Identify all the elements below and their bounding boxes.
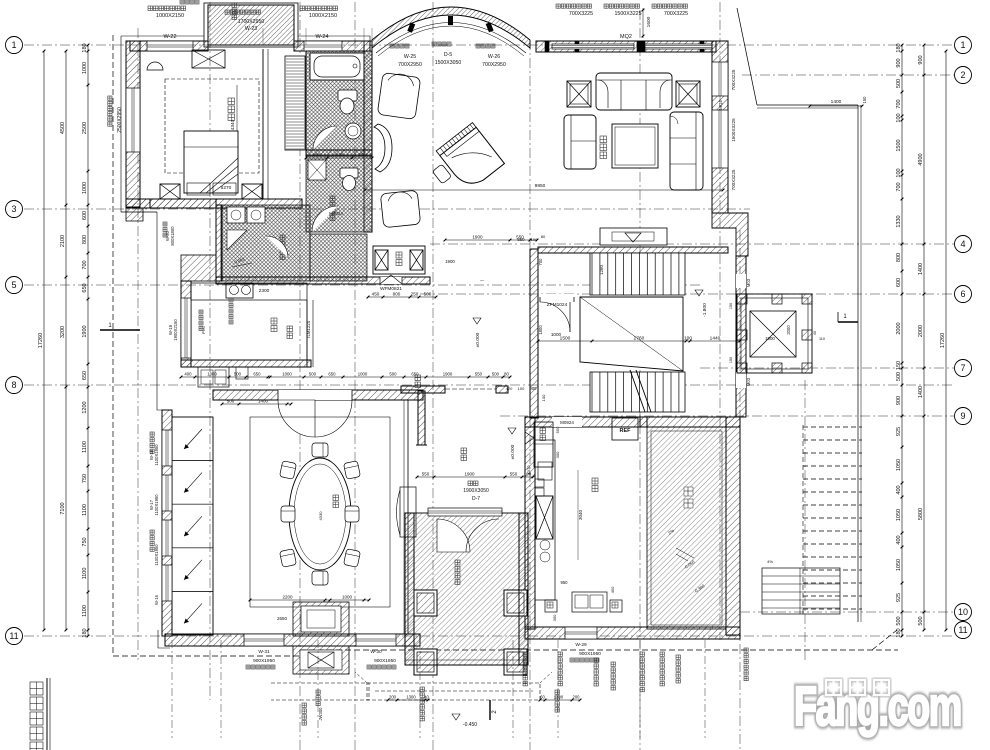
wall chinese kitchen left [181, 281, 191, 367]
door arc bath2 [312, 206, 338, 232]
grid line row 6 [420, 293, 954, 295]
wall stair top [538, 247, 728, 253]
garden steps right [762, 568, 840, 614]
bench top of stairs [600, 228, 667, 245]
watermark chinese core [826, 680, 841, 695]
dining inner rect [250, 417, 390, 607]
dumbwaiter X shaft [536, 496, 553, 539]
wall living right [712, 41, 728, 213]
label above W-24 [300, 6, 338, 11]
bath2 label [330, 196, 335, 221]
terrace inner edge [651, 431, 722, 625]
dim 1900 left of stairs [445, 239, 537, 241]
eave dashed line left [112, 35, 114, 656]
stair landing [580, 297, 683, 371]
stove [226, 283, 253, 298]
note left bottom [302, 703, 306, 725]
water box 2 [610, 600, 622, 612]
porch columns [414, 590, 437, 616]
wall laundry bottom / corridor wall [216, 277, 430, 284]
side table X right [676, 81, 700, 107]
armchair lower [380, 190, 420, 228]
wall bedroom top right of bay [294, 41, 370, 51]
eave dashed line bottom [300, 649, 898, 651]
window W-22 [147, 41, 193, 51]
dim row corridor [368, 296, 436, 298]
shower bath4 [227, 230, 247, 250]
wall lamp arc [147, 62, 163, 70]
grand piano [436, 123, 504, 192]
nightstand right [242, 184, 262, 199]
terrace label [684, 487, 693, 496]
dim row hall y338 [538, 340, 740, 342]
wall stair left [530, 249, 538, 418]
grid col A [137, 28, 139, 660]
grid bubble right 6 [955, 286, 972, 303]
wall bedroom top [130, 41, 208, 51]
wardrobe strip [172, 417, 213, 635]
elevator shaft [737, 294, 812, 373]
window W-29 [565, 627, 597, 639]
kitchen sink bottom [572, 592, 607, 612]
grid line row 3 [24, 208, 750, 210]
door TLM1224 [306, 300, 308, 367]
note under porch [420, 687, 424, 721]
grid line row 2 [742, 74, 954, 76]
bath4 tile floor [221, 205, 310, 281]
coffee table [612, 124, 658, 168]
small boxes W [535, 479, 544, 487]
washer boxes [227, 207, 245, 223]
vertical refs bottom [171, 640, 173, 738]
left dimension total [43, 51, 45, 630]
dining door opening arcs [278, 390, 352, 400]
dim 400 1000 500 650 row [181, 376, 268, 378]
note 500x400 [229, 298, 233, 324]
wall left step mid [181, 255, 216, 281]
wall kitchen left [525, 417, 535, 629]
porch label [455, 560, 460, 585]
grid bubble right 9 [955, 408, 972, 425]
grid col G [639, 10, 641, 750]
level +0.000 hall [473, 318, 481, 324]
wall bedroom/bath divider [262, 49, 264, 199]
grid col H [719, 2, 721, 640]
watermark Fang.com core [794, 675, 961, 737]
grid bubble right 7 [955, 360, 972, 377]
note pvc pipe 2 [558, 652, 562, 686]
bed pillows [187, 183, 210, 195]
shower bath2 [308, 160, 326, 180]
toilet bath1 [338, 90, 357, 101]
right dimension string inner [901, 45, 903, 636]
armchair upper [377, 73, 420, 120]
basin bath1 [345, 123, 361, 139]
grid line row 8 [24, 384, 954, 386]
hall label mid [287, 326, 293, 339]
grid line row 9 [500, 415, 954, 417]
porch side walls [405, 513, 414, 665]
hall label [461, 448, 467, 461]
sink room below [198, 367, 229, 387]
fireplace [293, 602, 349, 636]
level -1.800 [695, 290, 703, 296]
ground well label [396, 252, 402, 266]
vertical refs top [262, 28, 264, 45]
dim rows dining bottom [250, 599, 369, 601]
porch step dash diagonals [355, 672, 367, 683]
door WFM0821 [380, 277, 402, 284]
eave dashed diagonal bottom-right [872, 630, 897, 650]
note terrace drain [744, 648, 748, 681]
porch step dashes [367, 683, 540, 700]
grid line row 1 [24, 44, 954, 46]
grid bubble right 1 [955, 37, 972, 54]
fridge REF [612, 418, 638, 440]
dim 4340 vertical [236, 85, 238, 170]
wall step living bottom-right [712, 213, 748, 256]
windows living right [712, 62, 728, 96]
dim row hall y475 [417, 476, 533, 478]
wall bath right [364, 41, 372, 232]
bath4 label [280, 235, 285, 260]
grid bubble left 8 [6, 377, 23, 394]
label above W-22 [148, 6, 186, 11]
kitchen counters left [535, 440, 555, 600]
wall MQ2 top [536, 41, 716, 52]
wall bedroom left [126, 41, 140, 207]
toilet bath2 [340, 168, 358, 178]
note pvc pipe 7 [676, 655, 680, 683]
room label living [600, 136, 607, 159]
note above bay left [180, 0, 199, 4]
bedroom ceiling dashed [165, 79, 259, 173]
parapet steps bottom-left corner [157, 212, 162, 410]
dining table oval [289, 458, 351, 570]
note pvc pipe 1 [523, 652, 527, 686]
wall kitchen top [525, 417, 647, 427]
pergola dashed beams [803, 426, 862, 428]
grid bubble left 11 [6, 628, 23, 645]
piano stool [432, 164, 451, 184]
door arc bath1 [313, 126, 337, 150]
eave dashed line bottom-left [113, 655, 330, 657]
dim row dining top [222, 403, 291, 405]
fireplace dashed surround [271, 683, 369, 700]
break line [630, 370, 645, 412]
labels above MQ2 [556, 4, 591, 8]
dim row under bath1 [306, 157, 372, 159]
sofa top 3-seat [596, 73, 672, 110]
dining right wall lower [407, 400, 409, 634]
wall bedroom bottom [126, 199, 302, 208]
stairs lower run [590, 372, 685, 412]
grid line row 11 [24, 635, 954, 637]
dim row porch bottom [388, 699, 428, 701]
grid col C [299, 2, 301, 750]
wall laundry left [216, 205, 222, 281]
wall dining top [213, 390, 423, 400]
fireplace chimney below wall [293, 646, 349, 674]
grid bubble left 1 [6, 37, 23, 54]
wall hall/dining divider vertical [418, 391, 425, 445]
chinese kitchen counter [191, 283, 307, 300]
note pvc pipe 6 [611, 662, 615, 690]
porch floor [405, 513, 528, 665]
grid line row 5 [24, 284, 700, 286]
section marker 1 left [100, 329, 140, 331]
grid line row 4 [430, 243, 954, 245]
note pvc pipe 4 [660, 652, 664, 686]
door arc bath4 [266, 236, 288, 258]
grid col J [804, 380, 806, 660]
eave line top-right diagonal [737, 8, 757, 105]
wall bottom kitchen/terrace [525, 627, 740, 639]
grid col E [432, 2, 434, 750]
bathtub [310, 53, 364, 80]
wall dining left outer [162, 410, 172, 636]
elevator piers [737, 294, 747, 304]
kitchen label [592, 478, 598, 492]
curved bay wall [372, 7, 530, 48]
note top-left corner [232, 3, 237, 20]
window bench [374, 124, 392, 172]
porch bottom edge [405, 664, 528, 666]
sofa right 3-seat [670, 112, 703, 190]
closet shelving strip [285, 56, 305, 150]
hall south wall segments [401, 386, 445, 393]
level -0.450 [452, 714, 460, 720]
ground well box [373, 246, 425, 274]
left dimension string inner [87, 45, 89, 636]
grid bubble left 3 [6, 201, 23, 218]
dining label [333, 495, 339, 508]
door ZFM1024 [540, 294, 574, 302]
grid bubble right 11 [955, 622, 972, 639]
grid line row 10 [740, 611, 954, 613]
wall right main [736, 256, 746, 417]
watermark chinese halo [826, 680, 841, 695]
section marker 1 right [838, 321, 858, 323]
curved bay mullion blocks [407, 23, 415, 33]
side table X left [567, 81, 591, 107]
door M03 lower [736, 372, 746, 388]
bath1 tile floor [306, 51, 372, 155]
parapet outline top-left [121, 35, 204, 37]
bed [184, 131, 238, 193]
cabinet niche right [400, 487, 416, 537]
loveseat left [564, 115, 596, 169]
wardrobe top of bedroom [192, 50, 225, 68]
windows dining left W-18 W-17 W-16 [162, 430, 172, 466]
room label bedroom [228, 98, 235, 121]
level +0.000 hall2 [508, 428, 516, 434]
grid bubble right 2 [955, 67, 972, 84]
grid col I [739, 230, 741, 750]
dim 9850 [365, 189, 723, 191]
note under porch 2 [555, 690, 559, 712]
bath2 tile floor [306, 156, 372, 232]
dining chairs [279, 461, 296, 480]
wall kitchen bottom [181, 360, 311, 367]
eave line right vertical [857, 105, 859, 622]
kitchen label chinese [271, 318, 277, 332]
wall bath1 divider [305, 51, 307, 155]
grid line row 7 [700, 367, 954, 369]
porch door threshold [428, 508, 502, 516]
grid col D [354, 2, 356, 750]
terrace floor hatched [647, 427, 726, 629]
terrace slope mark [676, 548, 694, 561]
grid bubble left 5 [6, 277, 23, 294]
dim row y377 left [270, 376, 510, 378]
water box 1 [545, 600, 557, 612]
left dimension string groups [65, 51, 67, 630]
hall label [415, 375, 421, 388]
corridor tile floor [310, 234, 367, 281]
nightstand left [160, 184, 180, 199]
window W-24 [304, 41, 342, 51]
wall dining bottom [165, 634, 420, 646]
grid col F [529, 40, 531, 750]
small box below kitchen [236, 367, 248, 379]
service shaft boxes [534, 422, 553, 467]
grid col B [209, 2, 211, 700]
porch door swing arcs [437, 519, 470, 552]
note pvc pipe 5 [594, 658, 598, 686]
bay window W-23 [208, 5, 294, 45]
wall stub left of laundry [150, 199, 216, 208]
door triangles kitchen [525, 432, 534, 444]
window W-31 [244, 634, 284, 646]
terrace top wall [640, 417, 740, 427]
window W-21 [126, 88, 140, 152]
right dimension total [945, 51, 947, 630]
stairs upper run [590, 253, 685, 295]
window W-30 [356, 634, 396, 646]
svg-text:Fang.com: Fang.com [794, 675, 961, 737]
dim 1400 top right [810, 105, 862, 107]
title first floor plan [30, 682, 43, 750]
door M0924 kitchen [552, 417, 582, 427]
grid bubble right 4 [955, 236, 972, 253]
terrace right wall [726, 417, 740, 635]
right dimension groups [923, 45, 925, 630]
grid bubble right 10 [955, 604, 972, 621]
curtain wall MQ2 mullions [545, 41, 549, 52]
eave line top-right horizontal [757, 104, 858, 106]
door M03 upper [736, 274, 746, 288]
note pvc pipe 3 [640, 652, 644, 692]
window W-19 [181, 298, 191, 358]
watermark Fang.com halo [794, 675, 961, 737]
elevator X glass [750, 311, 796, 357]
